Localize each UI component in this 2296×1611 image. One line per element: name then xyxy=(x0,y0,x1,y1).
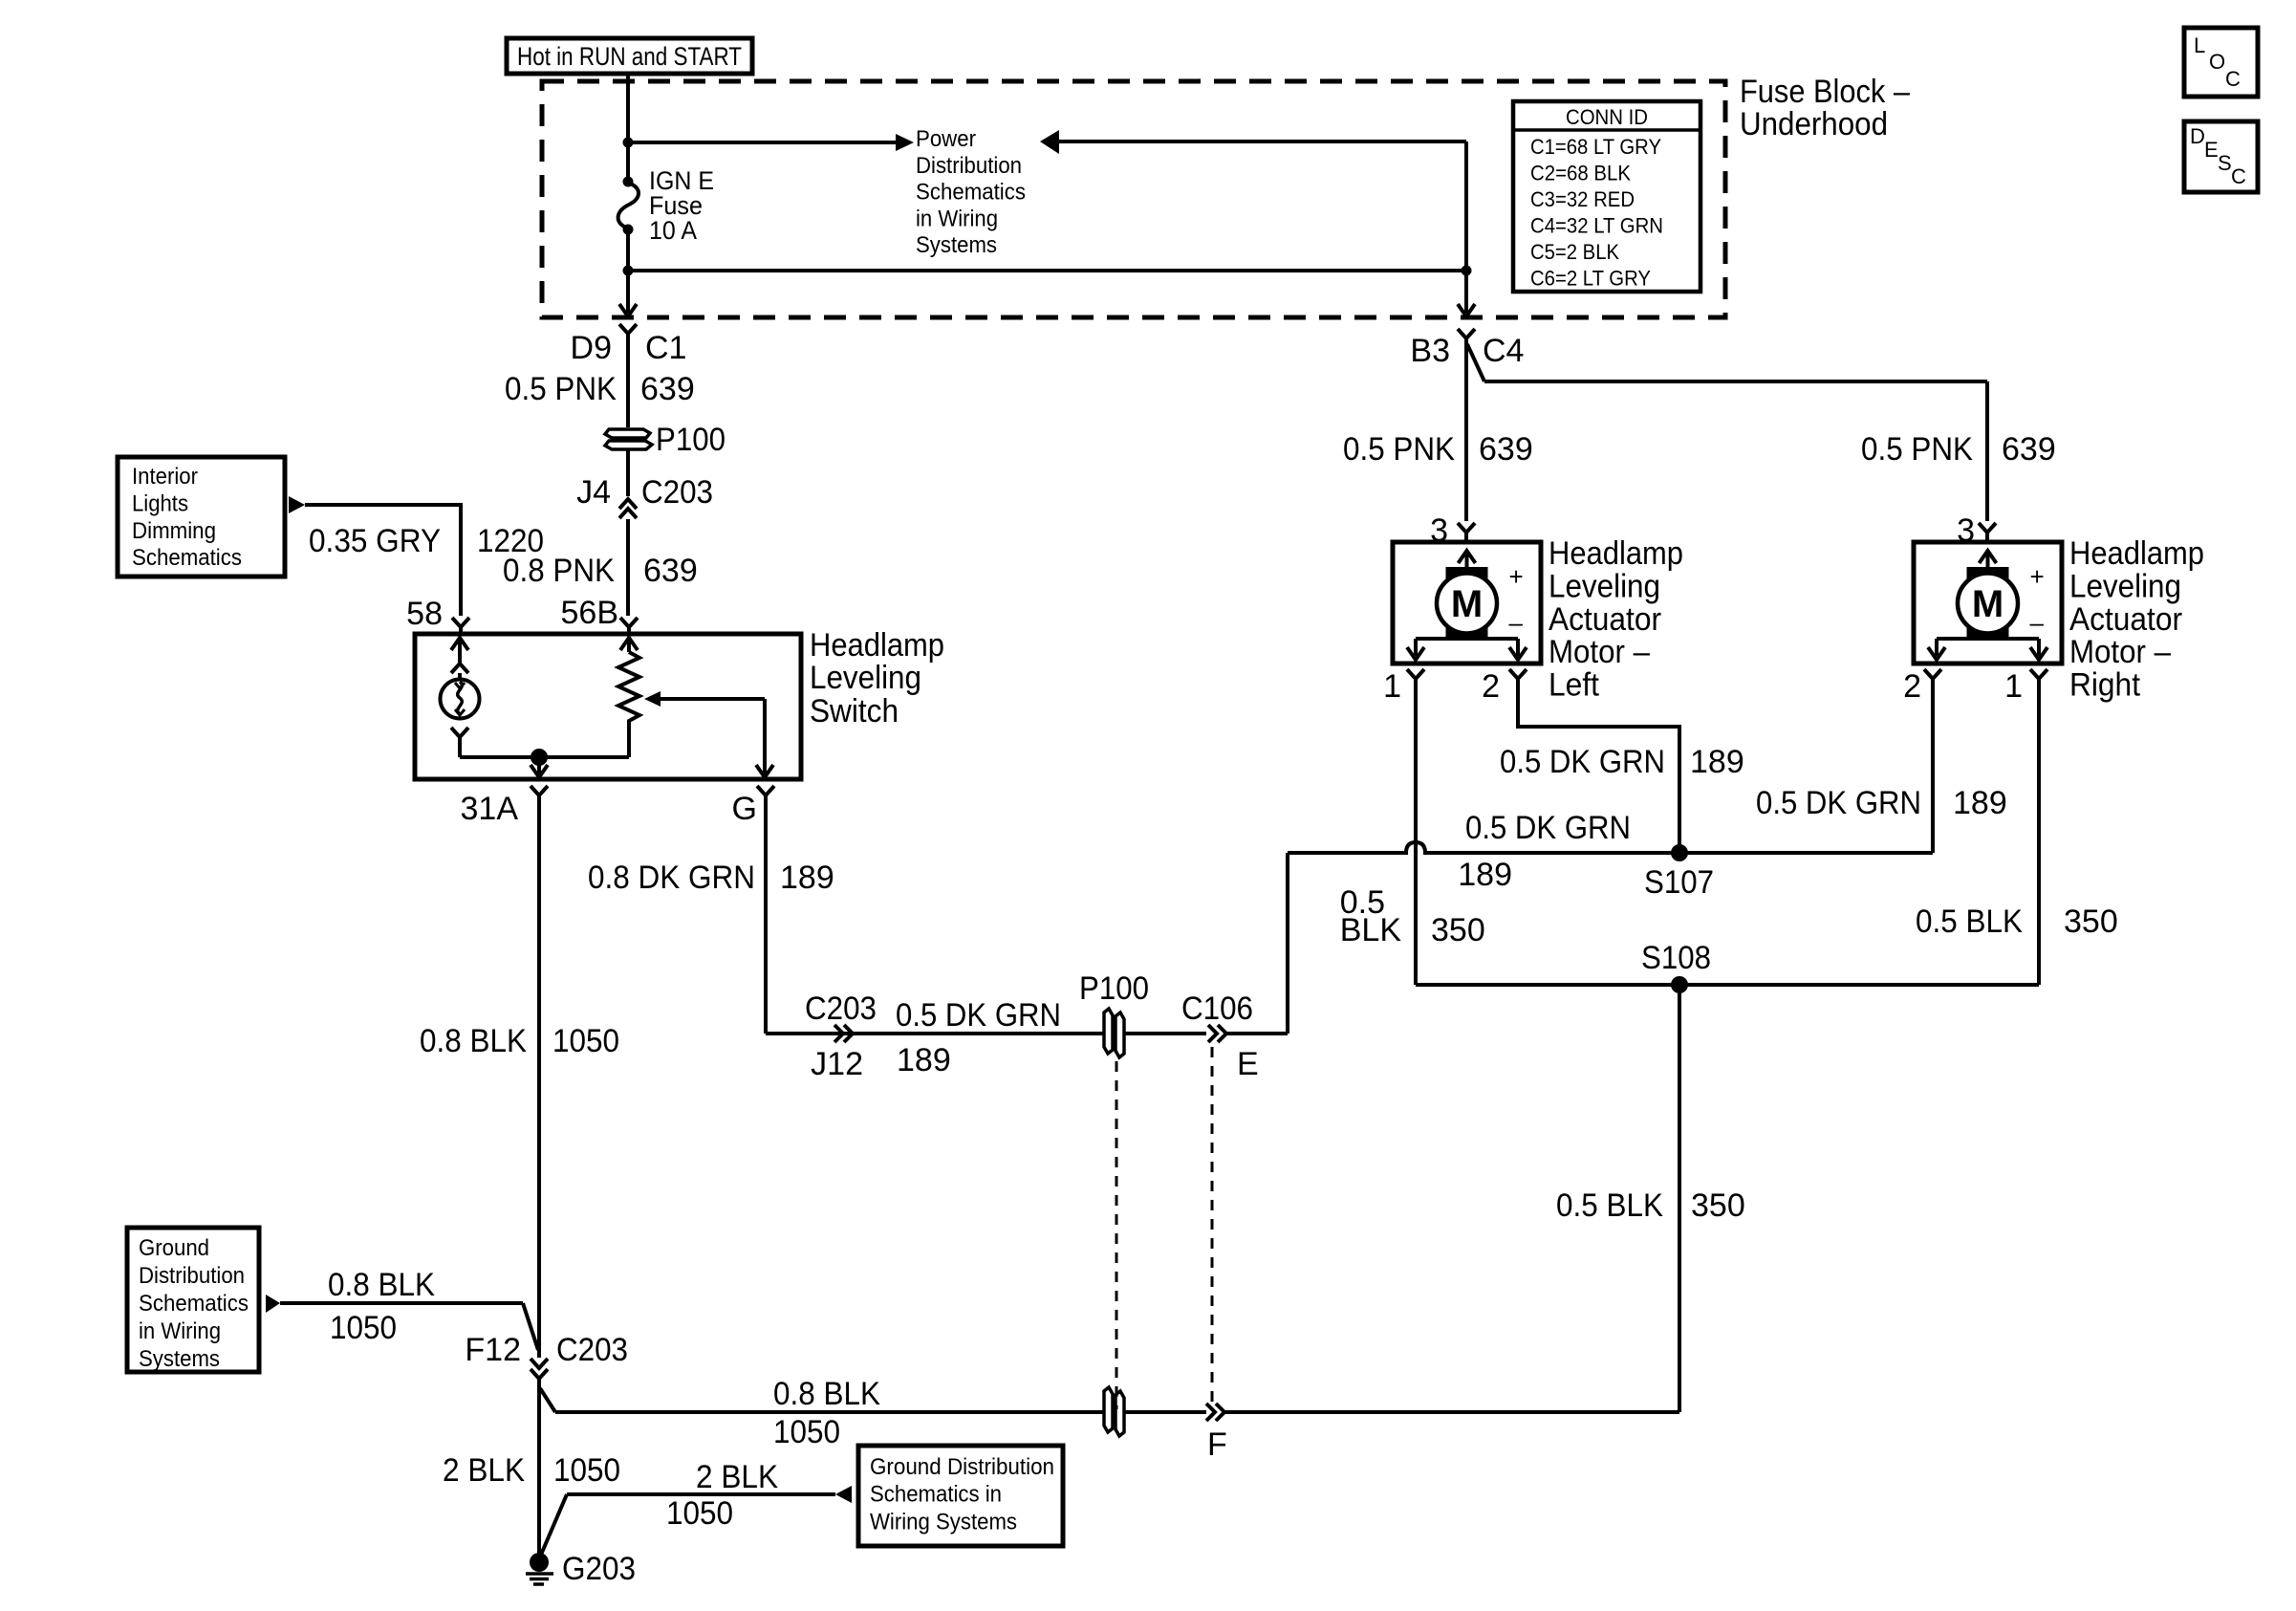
svg-text:C6=2 LT GRY: C6=2 LT GRY xyxy=(1530,267,1651,291)
svg-text:0.5 PNK: 0.5 PNK xyxy=(1861,431,1973,468)
svg-text:S107: S107 xyxy=(1644,864,1714,901)
svg-text:+: + xyxy=(2030,562,2045,591)
svg-text:350: 350 xyxy=(1691,1187,1745,1224)
svg-text:Systems: Systems xyxy=(916,232,997,258)
svg-text:Leveling: Leveling xyxy=(2069,568,2181,604)
svg-text:639: 639 xyxy=(1479,431,1533,468)
svg-text:0.5 DK GRN: 0.5 DK GRN xyxy=(896,997,1061,1034)
svg-text:0.5 DK GRN: 0.5 DK GRN xyxy=(1500,744,1665,780)
svg-text:1050: 1050 xyxy=(552,1023,619,1059)
svg-text:Hot in RUN and START: Hot in RUN and START xyxy=(517,42,742,71)
svg-text:1050: 1050 xyxy=(773,1414,840,1450)
svg-text:56B: 56B xyxy=(561,595,619,631)
svg-text:BLK: BLK xyxy=(1340,912,1402,948)
svg-text:C203: C203 xyxy=(805,991,877,1027)
svg-text:Systems: Systems xyxy=(139,1346,220,1372)
svg-text:31A: 31A xyxy=(461,791,519,827)
svg-text:C2=68 BLK: C2=68 BLK xyxy=(1530,162,1631,185)
svg-text:0.5 PNK: 0.5 PNK xyxy=(1343,431,1455,468)
svg-text:E: E xyxy=(1237,1046,1259,1082)
svg-text:Underhood: Underhood xyxy=(1740,106,1888,142)
svg-text:0.35 GRY: 0.35 GRY xyxy=(309,523,441,559)
svg-text:1050: 1050 xyxy=(330,1310,397,1346)
svg-text:Schematics: Schematics xyxy=(139,1291,249,1317)
svg-text:350: 350 xyxy=(1431,912,1485,948)
svg-text:J12: J12 xyxy=(811,1046,863,1082)
svg-text:1220: 1220 xyxy=(477,523,544,559)
svg-text:189: 189 xyxy=(897,1042,951,1078)
svg-text:Schematics: Schematics xyxy=(132,545,242,571)
svg-text:C4: C4 xyxy=(1483,333,1524,369)
svg-text:M: M xyxy=(1451,583,1483,625)
svg-text:0.5 DK GRN: 0.5 DK GRN xyxy=(1465,810,1631,846)
svg-text:189: 189 xyxy=(1690,744,1744,780)
svg-text:1: 1 xyxy=(2004,668,2023,705)
svg-text:C3=32 RED: C3=32 RED xyxy=(1530,187,1635,211)
svg-text:D9: D9 xyxy=(571,330,612,366)
svg-text:Right: Right xyxy=(2069,667,2141,704)
svg-text:D: D xyxy=(2190,124,2205,148)
svg-text:Switch: Switch xyxy=(810,693,899,729)
svg-text:2 BLK: 2 BLK xyxy=(696,1459,778,1495)
svg-text:639: 639 xyxy=(640,371,695,407)
svg-text:0.5 DK GRN: 0.5 DK GRN xyxy=(1756,785,1921,821)
svg-text:Dimming: Dimming xyxy=(132,518,216,544)
svg-text:+: + xyxy=(1509,562,1524,591)
svg-text:Actuator: Actuator xyxy=(2069,601,2182,638)
svg-text:2: 2 xyxy=(1482,668,1500,705)
svg-text:P100: P100 xyxy=(656,422,726,458)
svg-text:E: E xyxy=(2204,138,2219,162)
svg-text:Distribution: Distribution xyxy=(139,1263,245,1289)
svg-text:Interior: Interior xyxy=(132,464,198,490)
svg-text:Ground: Ground xyxy=(139,1235,209,1261)
svg-text:0.8 BLK: 0.8 BLK xyxy=(773,1376,880,1412)
svg-text:S108: S108 xyxy=(1641,940,1711,976)
svg-text:G203: G203 xyxy=(562,1551,636,1587)
svg-text:C203: C203 xyxy=(556,1332,628,1368)
svg-text:B3: B3 xyxy=(1410,333,1450,369)
svg-text:1050: 1050 xyxy=(666,1495,733,1532)
svg-text:0.5 BLK: 0.5 BLK xyxy=(1556,1187,1663,1224)
svg-text:189: 189 xyxy=(1953,785,2007,821)
svg-text:S: S xyxy=(2218,151,2232,175)
svg-text:0.5 BLK: 0.5 BLK xyxy=(1916,903,2023,940)
svg-text:Headlamp: Headlamp xyxy=(810,627,944,664)
svg-text:Fuse Block –: Fuse Block – xyxy=(1740,74,1910,110)
svg-text:C106: C106 xyxy=(1181,991,1253,1027)
svg-text:Left: Left xyxy=(1549,667,1600,704)
svg-text:O: O xyxy=(2209,50,2225,74)
svg-text:Leveling: Leveling xyxy=(810,660,921,696)
svg-text:2 BLK: 2 BLK xyxy=(443,1452,525,1489)
svg-text:M: M xyxy=(1972,583,2004,625)
svg-text:350: 350 xyxy=(2064,903,2118,940)
svg-text:F: F xyxy=(1207,1426,1227,1463)
svg-text:0.8 BLK: 0.8 BLK xyxy=(420,1023,527,1059)
svg-text:58: 58 xyxy=(406,596,443,632)
svg-text:C: C xyxy=(2231,164,2246,188)
svg-text:in Wiring: in Wiring xyxy=(916,206,998,231)
svg-text:Ground Distribution: Ground Distribution xyxy=(870,1454,1054,1480)
svg-text:Motor –: Motor – xyxy=(2069,634,2171,670)
svg-text:Lights: Lights xyxy=(132,490,188,516)
svg-text:Power: Power xyxy=(916,126,976,152)
svg-text:C203: C203 xyxy=(641,474,713,511)
svg-text:J4: J4 xyxy=(576,474,611,511)
svg-text:Schematics: Schematics xyxy=(916,180,1026,206)
svg-text:CONN ID: CONN ID xyxy=(1566,105,1648,129)
svg-text:Headlamp: Headlamp xyxy=(1549,535,1683,572)
svg-text:Leveling: Leveling xyxy=(1549,568,1660,604)
svg-text:C1: C1 xyxy=(645,330,686,366)
svg-text:L: L xyxy=(2194,33,2205,57)
svg-text:189: 189 xyxy=(1458,857,1512,893)
svg-text:Schematics in: Schematics in xyxy=(870,1482,1002,1508)
svg-text:189: 189 xyxy=(780,860,834,896)
svg-text:–: – xyxy=(2030,608,2045,637)
svg-text:C5=2 BLK: C5=2 BLK xyxy=(1530,240,1619,264)
svg-text:P100: P100 xyxy=(1079,970,1149,1007)
svg-text:1: 1 xyxy=(1383,668,1401,705)
svg-text:639: 639 xyxy=(2002,431,2056,468)
svg-text:–: – xyxy=(1509,608,1524,637)
svg-text:0.8 BLK: 0.8 BLK xyxy=(328,1267,435,1303)
svg-text:Wiring Systems: Wiring Systems xyxy=(870,1509,1017,1535)
svg-text:in Wiring: in Wiring xyxy=(139,1318,221,1344)
svg-text:Distribution: Distribution xyxy=(916,153,1022,179)
svg-text:Motor –: Motor – xyxy=(1549,634,1650,670)
svg-text:639: 639 xyxy=(643,553,698,589)
svg-text:Actuator: Actuator xyxy=(1549,601,1661,638)
svg-text:0.8 DK GRN: 0.8 DK GRN xyxy=(588,860,755,896)
svg-text:F12: F12 xyxy=(465,1332,521,1368)
svg-text:10 A: 10 A xyxy=(649,216,697,245)
svg-text:0.5 PNK: 0.5 PNK xyxy=(505,371,617,407)
svg-text:2: 2 xyxy=(1903,668,1921,705)
svg-text:Headlamp: Headlamp xyxy=(2069,535,2204,572)
svg-text:G: G xyxy=(732,791,757,827)
svg-text:C1=68 LT GRY: C1=68 LT GRY xyxy=(1530,135,1661,159)
svg-text:C: C xyxy=(2225,67,2241,91)
svg-text:C4=32 LT GRN: C4=32 LT GRN xyxy=(1530,214,1663,238)
svg-text:1050: 1050 xyxy=(553,1452,620,1489)
